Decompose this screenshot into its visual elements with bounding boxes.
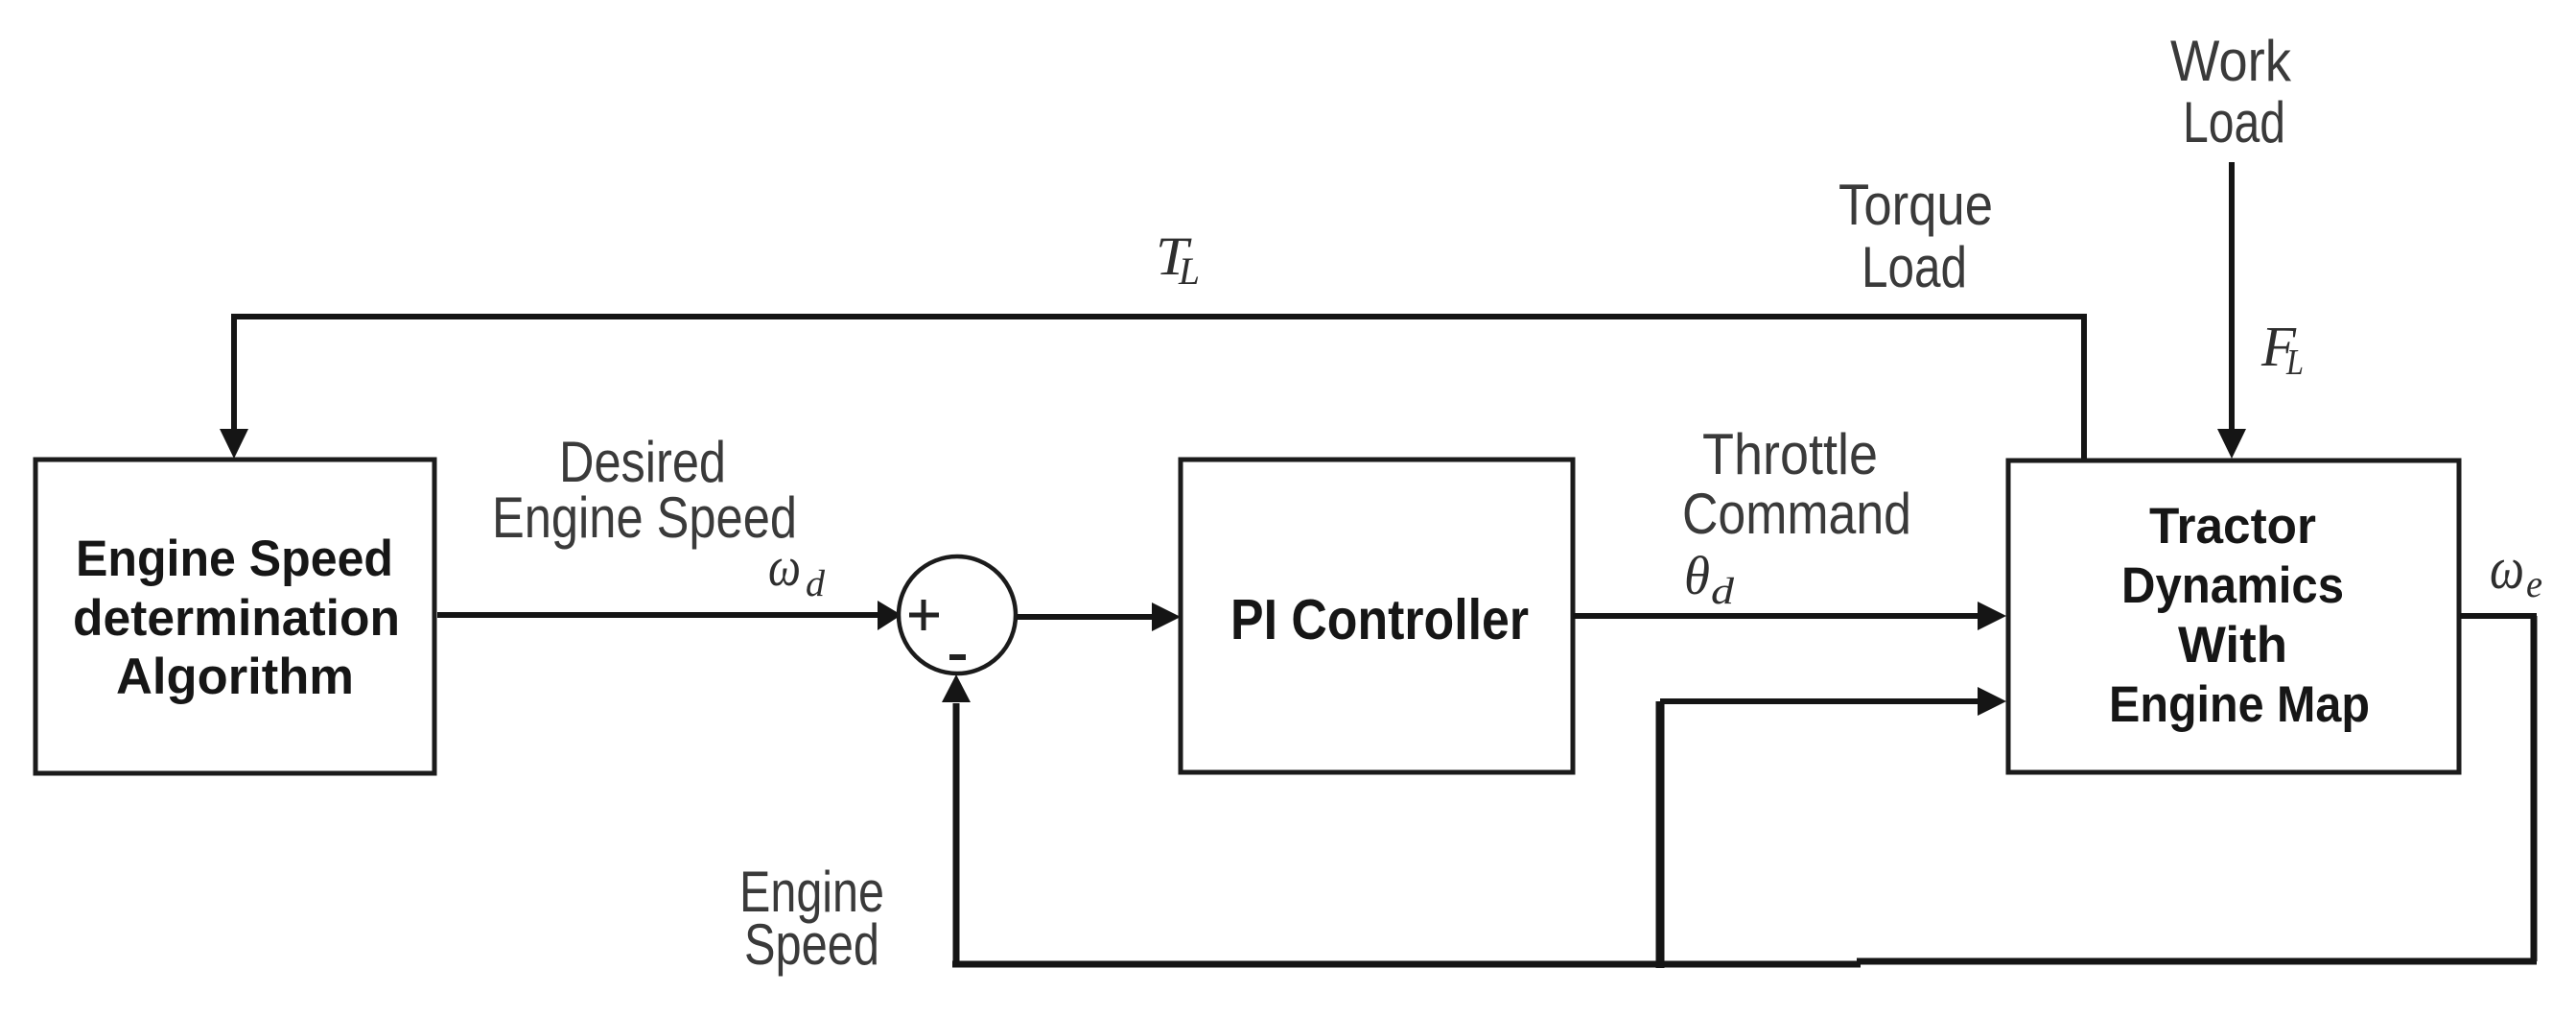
arrowhead of throttle command into Tractor box [1978,602,2006,630]
minus sign [949,654,966,660]
svg-text:Load: Load [2183,90,2285,154]
svg-text:ω: ω [2490,536,2524,602]
svg-text:Load: Load [1862,235,1967,299]
wire: summing junction to PI Controller [1017,614,1153,620]
wire: top torque-load feedback line TL [231,314,2087,319]
svg-text:PI Controller: PI Controller [1230,588,1529,651]
arrowhead of Work Load arrow into Tractor box top [2217,429,2246,459]
svg-text:Throttle: Throttle [1702,422,1878,486]
svg-text:ω: ω [768,535,801,598]
node: TL label [1156,226,1200,293]
svg-text:With: With [2178,617,2287,673]
svg-text:determination: determination [73,590,400,647]
wire: PI Controller to Tractor box (throttle command) [1573,613,1979,619]
wire: desired engine speed arrow to summing junction [437,612,880,618]
svg-text:Desired: Desired [559,430,726,494]
arrowhead of engine speed feedback into summing junction bottom [942,674,971,702]
node: omega_d label [768,535,826,604]
arrowhead into summing junction left [878,601,902,630]
wire: bottom feedback line left segment [952,961,1861,968]
wire: left vertical drop into Engine Speed determination Algorithm box [231,314,237,431]
node: Desired Engine Speed label [492,430,797,550]
wire: right vertical drop from TL line into Tractor box top [2081,314,2087,461]
arrowhead into PI Controller [1152,603,1181,631]
block: PI Controller [1181,460,1573,772]
block: Tractor Dynamics With Engine Map [2008,461,2459,772]
svg-text:Command: Command [1682,482,1911,546]
node: omega_e label [2490,536,2542,605]
wire: branch horizontal into Tractor box (engine speed input) [1660,698,1979,704]
wire: feedback up into summing junction [953,703,960,964]
svg-text:d: d [1711,571,1735,612]
arrowhead into left box top [220,429,248,459]
svg-text:Tractor: Tractor [2149,498,2316,555]
node: Torque Load label [1838,173,1993,299]
node: Throttle Command label [1682,422,1911,546]
block: Engine Speed determination Algorithm [35,460,434,773]
svg-text:L: L [1178,249,1200,293]
wire: right vertical feedback drop [2531,616,2538,961]
svg-text:d: d [806,563,826,604]
svg-text:Dynamics: Dynamics [2121,557,2344,614]
svg-text:L: L [2285,343,2304,383]
wire: Work Load arrow into Tractor box top [2229,162,2235,431]
arrowhead of engine speed input into Tractor box [1978,687,2006,716]
svg-text:Algorithm: Algorithm [116,649,354,705]
wire: omega_e output from Tractor box [2460,613,2537,619]
svg-text:Torque: Torque [1838,173,1993,237]
svg-text:Engine Speed: Engine Speed [76,531,393,587]
svg-text:Engine Speed: Engine Speed [492,485,797,550]
wire: bottom feedback line right segment [1857,958,2537,965]
svg-text:e: e [2526,562,2542,605]
node: theta_d label [1684,546,1735,612]
svg-text:Speed: Speed [744,912,879,977]
node: FL label [2260,315,2304,383]
plus sign [909,600,939,630]
node: Engine Speed label (bottom) [739,860,884,977]
node: Work Load label [2170,29,2292,154]
summing junction [899,556,1016,673]
wire: branch vertical up to engine-speed input [1656,701,1665,968]
svg-text:Work: Work [2170,29,2292,93]
svg-text:θ: θ [1684,546,1710,606]
svg-text:Engine Map: Engine Map [2109,676,2370,733]
